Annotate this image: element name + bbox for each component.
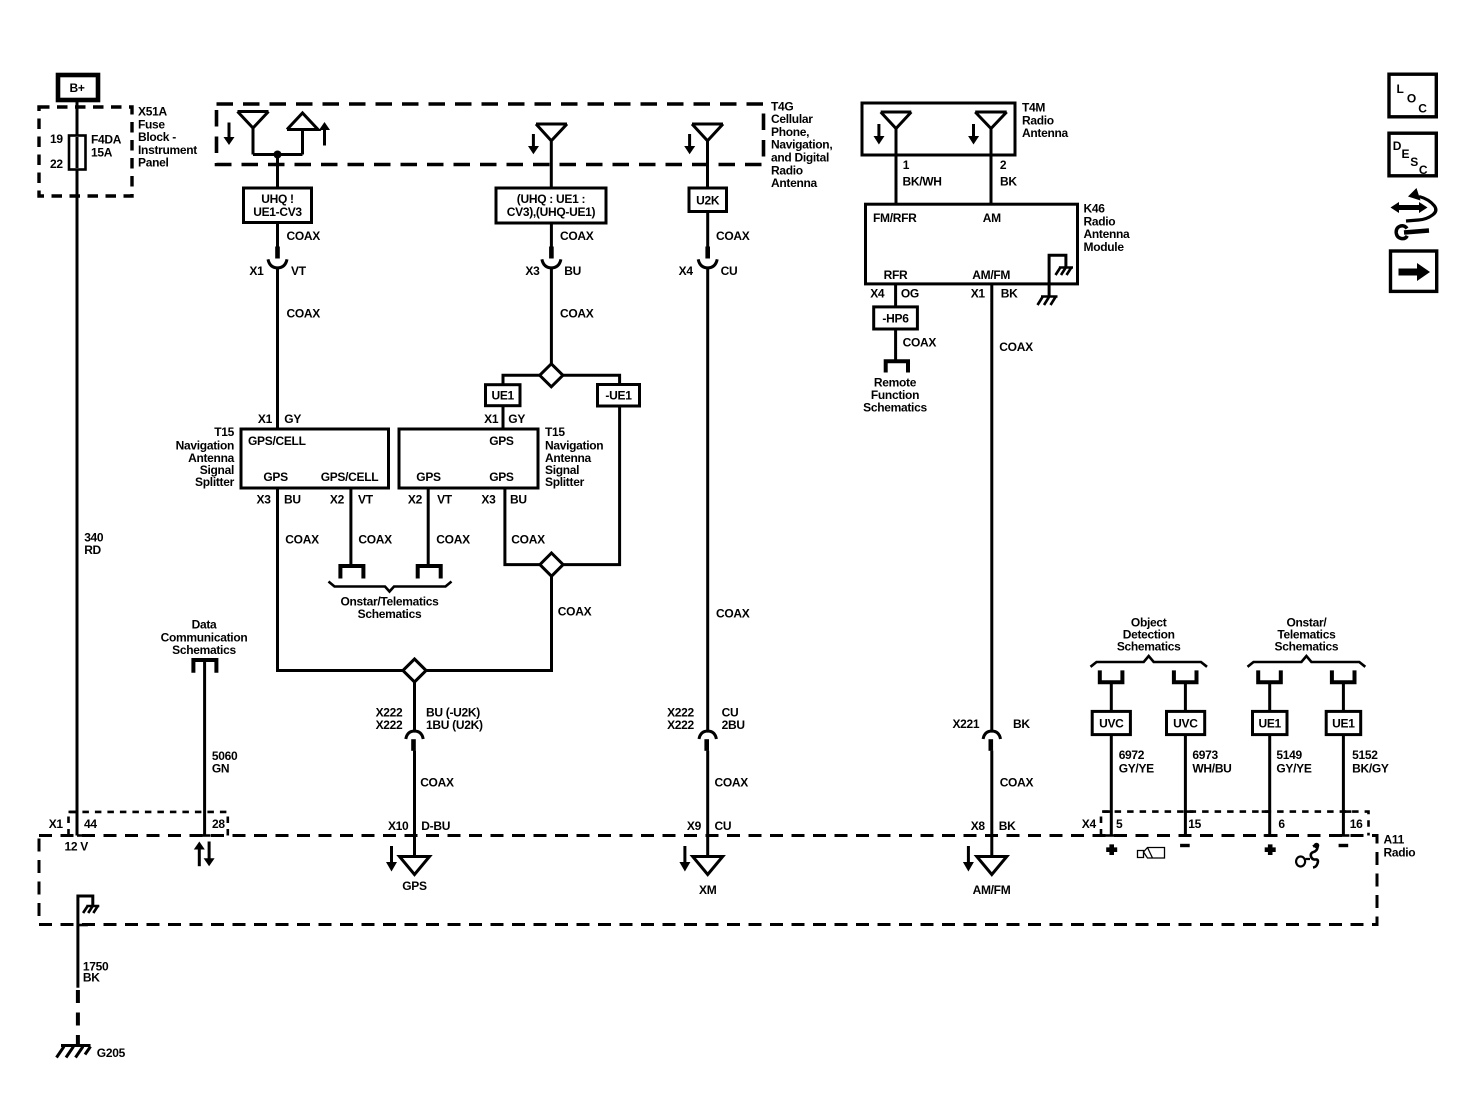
svg-text:XM: XM — [699, 883, 717, 897]
connector strip X1 (radio) dotted — [49, 812, 228, 836]
svg-text:16: 16 — [1350, 817, 1363, 831]
diamond junction upper — [540, 364, 563, 387]
antenna TX symbol (cellular) — [287, 113, 318, 155]
svg-text:6973: 6973 — [1192, 748, 1218, 762]
svg-text:X221: X221 — [952, 717, 979, 731]
wire U2K to connector X4 — [708, 212, 750, 248]
svg-text:X2: X2 — [330, 493, 345, 507]
wire T4M pin1 BK/WH to K46 — [896, 155, 942, 205]
off-page terminal (remote function) — [886, 361, 908, 372]
wire K46 RFR pin X4 OG — [870, 284, 919, 308]
GPS destination arrow — [400, 857, 430, 893]
plus sign pin 6 — [1265, 844, 1276, 855]
svg-text:E: E — [1402, 147, 1410, 161]
wire chain A to UVC — [1110, 682, 1113, 712]
svg-text:X4: X4 — [679, 264, 694, 278]
svg-text:Schematics: Schematics — [1275, 640, 1339, 654]
svg-text:X1: X1 — [49, 817, 64, 831]
svg-text:BU: BU — [564, 264, 581, 278]
fuse block X51A dashed box — [39, 105, 197, 197]
splitter T15 right box — [399, 429, 538, 488]
wire 1750 BK ground lead — [78, 925, 109, 988]
option box UE1 (C) — [1253, 711, 1288, 734]
svg-text:12 V: 12 V — [65, 840, 89, 854]
svg-text:44: 44 — [84, 817, 97, 831]
svg-text:Panel: Panel — [138, 156, 169, 170]
chassis ground (inside K46) — [1056, 268, 1074, 276]
wire 5152 BK/GY — [1337, 735, 1389, 836]
down arrow AM — [968, 124, 979, 145]
brace onstar/telematics — [329, 582, 452, 622]
svg-text:1: 1 — [903, 158, 910, 172]
fuse F4DA 15A — [50, 132, 122, 171]
wire UHQ box to connector X1 — [278, 223, 321, 248]
svg-text:COAX: COAX — [558, 604, 592, 618]
svg-text:X222: X222 — [667, 718, 694, 732]
svg-text:COAX: COAX — [420, 776, 454, 790]
antenna RX symbol (cellular) — [238, 112, 269, 155]
off-page terminal chain B — [1174, 670, 1197, 682]
svg-text:Antenna: Antenna — [1022, 126, 1069, 140]
svg-text:X2: X2 — [408, 493, 423, 507]
inline connector X222 CU 2BU — [667, 706, 745, 751]
svg-text:5149: 5149 — [1276, 748, 1302, 762]
minus sign pin 16 — [1339, 844, 1349, 847]
svg-text:GPS: GPS — [402, 879, 427, 893]
wire T4M pin2 BK to K46 — [991, 155, 1017, 205]
svg-text:G205: G205 — [97, 1046, 126, 1060]
label T15 splitter left — [176, 425, 235, 489]
svg-text:CV3),(UHQ-UE1): CV3),(UHQ-UE1) — [507, 205, 596, 219]
wire chain B to UVC — [1184, 682, 1187, 712]
svg-text:BU: BU — [510, 493, 527, 507]
wire 5149 GY/YE — [1262, 735, 1312, 836]
battery feed B+ terminal — [58, 75, 98, 100]
camera icon — [1138, 848, 1165, 859]
label T15 splitter right — [545, 425, 603, 489]
wire junction to UHQ box — [276, 155, 279, 190]
jump navigation icon (arrows + wrench) — [1391, 188, 1436, 239]
svg-text:BK: BK — [1001, 287, 1018, 301]
svg-text:GN: GN — [212, 761, 229, 775]
T4M radio antenna box — [862, 101, 1069, 156]
svg-text:BK: BK — [1013, 717, 1030, 731]
svg-text:COAX: COAX — [287, 306, 321, 320]
wire 6972 GY/YE — [1103, 735, 1154, 836]
svg-text:WH/BU: WH/BU — [1192, 762, 1231, 776]
down arrow AM/FM — [963, 846, 974, 872]
svg-text:UVC: UVC — [1173, 717, 1198, 731]
wire XM coax into radio — [687, 751, 748, 855]
svg-text:BK: BK — [1000, 175, 1017, 189]
wire 5060 GN data line — [199, 660, 238, 836]
svg-text:BU: BU — [284, 493, 301, 507]
svg-text:OG: OG — [901, 287, 919, 301]
label object detection schematics — [1117, 615, 1181, 653]
down arrow nav — [528, 134, 539, 154]
brace onstar/telematics (right) — [1248, 656, 1366, 667]
svg-text:GY/YE: GY/YE — [1276, 762, 1311, 776]
svg-text:RFR: RFR — [884, 268, 908, 282]
internal ground elbow K46 — [1049, 255, 1066, 283]
svg-text:VT: VT — [437, 493, 453, 507]
svg-text:X10: X10 — [388, 819, 409, 833]
svg-text:Radio: Radio — [1384, 845, 1416, 859]
connector strip X4 (radio) dotted — [1082, 812, 1369, 836]
svg-text:COAX: COAX — [715, 776, 749, 790]
svg-text:X3: X3 — [257, 493, 272, 507]
svg-text:T15: T15 — [214, 425, 234, 439]
label remote function schematics — [863, 376, 927, 415]
A11 radio dashed box — [39, 833, 1415, 925]
antenna digital radio (right) — [692, 124, 723, 189]
off-page terminal chain D — [1332, 670, 1355, 682]
svg-text:15A: 15A — [91, 145, 113, 159]
svg-text:CU: CU — [721, 264, 738, 278]
wire GPS coax into radio — [388, 751, 454, 855]
svg-text:GY/YE: GY/YE — [1119, 762, 1154, 776]
svg-text:C: C — [1418, 102, 1427, 116]
svg-text:UVC: UVC — [1099, 717, 1124, 731]
svg-text:COAX: COAX — [1000, 776, 1034, 790]
svg-text:-UE1: -UE1 — [605, 389, 632, 403]
wire left splitter GPS/CELL to onstar terminal — [351, 488, 392, 565]
svg-text:BK: BK — [83, 970, 100, 984]
antenna AM element — [975, 112, 1007, 155]
svg-text:D-BU: D-BU — [421, 819, 450, 833]
off-page terminal (onstar right) — [418, 566, 441, 579]
svg-text:FM/RFR: FM/RFR — [873, 211, 917, 225]
svg-text:COAX: COAX — [999, 340, 1033, 354]
svg-text:Data: Data — [192, 618, 217, 632]
svg-text:28: 28 — [212, 817, 225, 831]
pins left splitter X3 BU / X2 VT — [257, 493, 374, 507]
AM/FM destination arrow — [973, 857, 1011, 898]
bidirectional arrows pin 28 — [194, 842, 215, 867]
antenna FM element — [881, 112, 912, 155]
svg-text:AM/FM: AM/FM — [972, 268, 1010, 282]
wire 340 RD fuse to radio pin 44 — [69, 169, 104, 836]
inline connector X4 CU — [679, 247, 738, 279]
svg-text:6972: 6972 — [1119, 748, 1145, 762]
pins right splitter X2 VT / X3 BU — [408, 493, 527, 507]
svg-text:X4: X4 — [1082, 817, 1097, 831]
minus sign pin 15 — [1180, 844, 1190, 847]
plus sign pin 5 — [1106, 844, 1117, 855]
svg-text:GY: GY — [284, 412, 301, 426]
svg-text:BK/GY: BK/GY — [1352, 762, 1389, 776]
svg-text:X222: X222 — [376, 718, 403, 732]
svg-text:19: 19 — [50, 132, 63, 146]
svg-text:X1: X1 — [971, 287, 986, 301]
svg-text:GPS/CELL: GPS/CELL — [248, 434, 306, 448]
wire chain C to UE1 — [1268, 682, 1271, 712]
off-page terminal chain C — [1258, 670, 1281, 682]
svg-text:GY: GY — [508, 412, 525, 426]
svg-text:-HP6: -HP6 — [882, 311, 909, 325]
wire diamond 3 to connector X222 — [413, 682, 416, 732]
T4G antenna dashed box — [217, 99, 833, 190]
svg-text:GPS: GPS — [263, 470, 288, 484]
svg-text:5152: 5152 — [1352, 748, 1378, 762]
svg-text:AM/FM: AM/FM — [973, 883, 1011, 897]
svg-text:VT: VT — [291, 264, 307, 278]
svg-text:X4: X4 — [870, 287, 885, 301]
wire K46 AM/FM pin X1 BK down — [971, 284, 1033, 732]
wire diamond to -UE1 branch — [563, 375, 620, 385]
svg-text:O: O — [1407, 92, 1416, 106]
svg-text:COAX: COAX — [287, 229, 321, 243]
wire right splitter X2 VT to onstar terminal — [428, 488, 470, 565]
microphone icon — [1296, 843, 1319, 868]
DESC nav box — [1389, 133, 1436, 177]
inline connector X222 GPS — [376, 706, 483, 751]
wire connector to diamond junction — [551, 268, 593, 365]
wire AM/FM coax into radio — [971, 751, 1034, 855]
option box U2K — [689, 188, 727, 212]
chassis ground (below K46) — [1038, 297, 1058, 306]
svg-text:2: 2 — [1000, 158, 1007, 172]
svg-text:UE1: UE1 — [1332, 717, 1355, 731]
svg-text:X3: X3 — [481, 493, 496, 507]
svg-text:X1: X1 — [258, 412, 273, 426]
forward arrow box — [1391, 251, 1437, 291]
wire 6973 WH/BU — [1179, 735, 1231, 836]
svg-text:CU: CU — [715, 819, 732, 833]
svg-text:COAX: COAX — [285, 533, 319, 547]
svg-text:COAX: COAX — [716, 607, 750, 621]
down arrow FM — [874, 124, 885, 145]
wire COAX to left splitter X1 — [258, 268, 320, 430]
off-page terminal chain A — [1100, 670, 1123, 682]
internal ground elbow (radio) — [78, 896, 93, 925]
svg-text:Schematics: Schematics — [863, 401, 927, 415]
svg-text:Module: Module — [1084, 240, 1125, 254]
svg-text:2BU: 2BU — [722, 718, 745, 732]
splitter T15 left box — [241, 429, 389, 488]
svg-text:COAX: COAX — [560, 229, 594, 243]
svg-text:UE1: UE1 — [1258, 717, 1281, 731]
diamond junction 3 — [403, 659, 426, 682]
svg-text:T15: T15 — [545, 425, 565, 439]
option box -UE1 — [598, 385, 640, 407]
LOC nav box — [1389, 74, 1436, 117]
svg-text:GPS: GPS — [416, 470, 441, 484]
svg-text:5: 5 — [1116, 817, 1123, 831]
svg-text:COAX: COAX — [436, 533, 470, 547]
label onstar/telematics schematics (right) — [1275, 615, 1339, 653]
wire right splitter X3 BU to diamond 2 — [505, 488, 545, 565]
svg-text:X1: X1 — [249, 264, 264, 278]
option box UVC (B) — [1167, 711, 1205, 734]
svg-text:X9: X9 — [687, 819, 702, 833]
dashed ground wire to G205 — [76, 990, 80, 1046]
antenna nav (middle) — [536, 124, 567, 189]
svg-text:B+: B+ — [69, 81, 84, 95]
svg-text:COAX: COAX — [716, 229, 750, 243]
svg-text:GPS: GPS — [489, 470, 514, 484]
svg-text:UE1-CV3: UE1-CV3 — [253, 205, 302, 219]
wire B+ to fuse — [76, 99, 79, 136]
wire -HP6 to remote function terminal — [896, 329, 937, 361]
svg-text:X3: X3 — [525, 264, 540, 278]
up arrow (transmit) — [319, 122, 330, 146]
svg-text:6: 6 — [1278, 817, 1285, 831]
wire diamond to UE1 branch — [503, 375, 540, 385]
svg-text:S: S — [1410, 155, 1418, 169]
K46 radio antenna module box — [866, 202, 1131, 284]
down arrow (receive) — [224, 123, 235, 146]
svg-text:BK/WH: BK/WH — [903, 175, 942, 189]
wire UE1 to right splitter X1 GY — [484, 406, 525, 429]
off-page terminal (onstar left) — [340, 566, 363, 579]
down arrow GPS — [386, 846, 397, 872]
off-page terminal (data comm) — [193, 660, 216, 673]
label data communication schematics — [161, 618, 248, 658]
svg-text:Splitter: Splitter — [195, 475, 235, 489]
svg-text:Schematics: Schematics — [1117, 640, 1181, 654]
svg-text:BK: BK — [999, 819, 1016, 833]
ground G205 — [57, 1046, 126, 1061]
svg-text:Schematics: Schematics — [358, 607, 422, 621]
chassis ground (inside radio) — [83, 906, 99, 913]
svg-text:GPS/CELL: GPS/CELL — [321, 470, 379, 484]
svg-text:1BU (U2K): 1BU (U2K) — [426, 718, 483, 732]
inline connector X221 BK — [952, 717, 1030, 751]
svg-text:C: C — [1419, 163, 1428, 177]
XM destination arrow — [693, 857, 723, 898]
svg-text:U2K: U2K — [696, 193, 720, 207]
wire K46 case ground — [1048, 284, 1051, 296]
svg-text:RD: RD — [84, 543, 101, 557]
wire diamond 2 to diamond 3 — [426, 576, 591, 670]
option box UVC (A) — [1092, 711, 1130, 734]
diamond junction 2 — [540, 553, 563, 576]
svg-text:X1: X1 — [484, 412, 499, 426]
option box (UHQ UE1 CV3)(UHQ-UE1) — [496, 188, 606, 223]
svg-text:X8: X8 — [971, 819, 986, 833]
wire -UE1 down to diamond 2 — [563, 406, 620, 565]
svg-text:VT: VT — [358, 493, 374, 507]
option box -HP6 — [874, 307, 918, 329]
junction node — [274, 151, 282, 159]
svg-text:COAX: COAX — [560, 306, 594, 320]
wire mid box to connector X3 — [551, 223, 593, 247]
wire chain D to UE1 — [1342, 682, 1345, 712]
option box UHQ UE1-CV3 — [244, 188, 312, 223]
svg-text:L: L — [1397, 82, 1404, 96]
svg-text:GPS: GPS — [489, 434, 514, 448]
svg-text:D: D — [1393, 139, 1402, 153]
svg-text:Schematics: Schematics — [172, 643, 236, 657]
wire left splitter GPS down-left run — [278, 488, 404, 671]
brace object detection — [1091, 656, 1208, 667]
svg-text:COAX: COAX — [358, 533, 392, 547]
svg-text:COAX: COAX — [903, 335, 937, 349]
wire antenna pair to junction — [253, 153, 303, 156]
svg-text:Splitter: Splitter — [545, 475, 585, 489]
svg-text:COAX: COAX — [511, 533, 545, 547]
down arrow XM — [679, 846, 690, 872]
inline connector X3 BU — [525, 247, 581, 279]
down arrow digital — [684, 134, 695, 154]
svg-text:15: 15 — [1188, 817, 1201, 831]
inline connector X1 VT — [249, 247, 306, 279]
option box UE1 — [486, 385, 521, 406]
svg-text:22: 22 — [50, 157, 63, 171]
svg-text:AM: AM — [983, 211, 1001, 225]
option box UE1 (D) — [1326, 711, 1361, 734]
wire XM coax long run — [708, 268, 750, 732]
svg-text:Antenna: Antenna — [771, 176, 818, 190]
svg-text:UE1: UE1 — [491, 389, 514, 403]
